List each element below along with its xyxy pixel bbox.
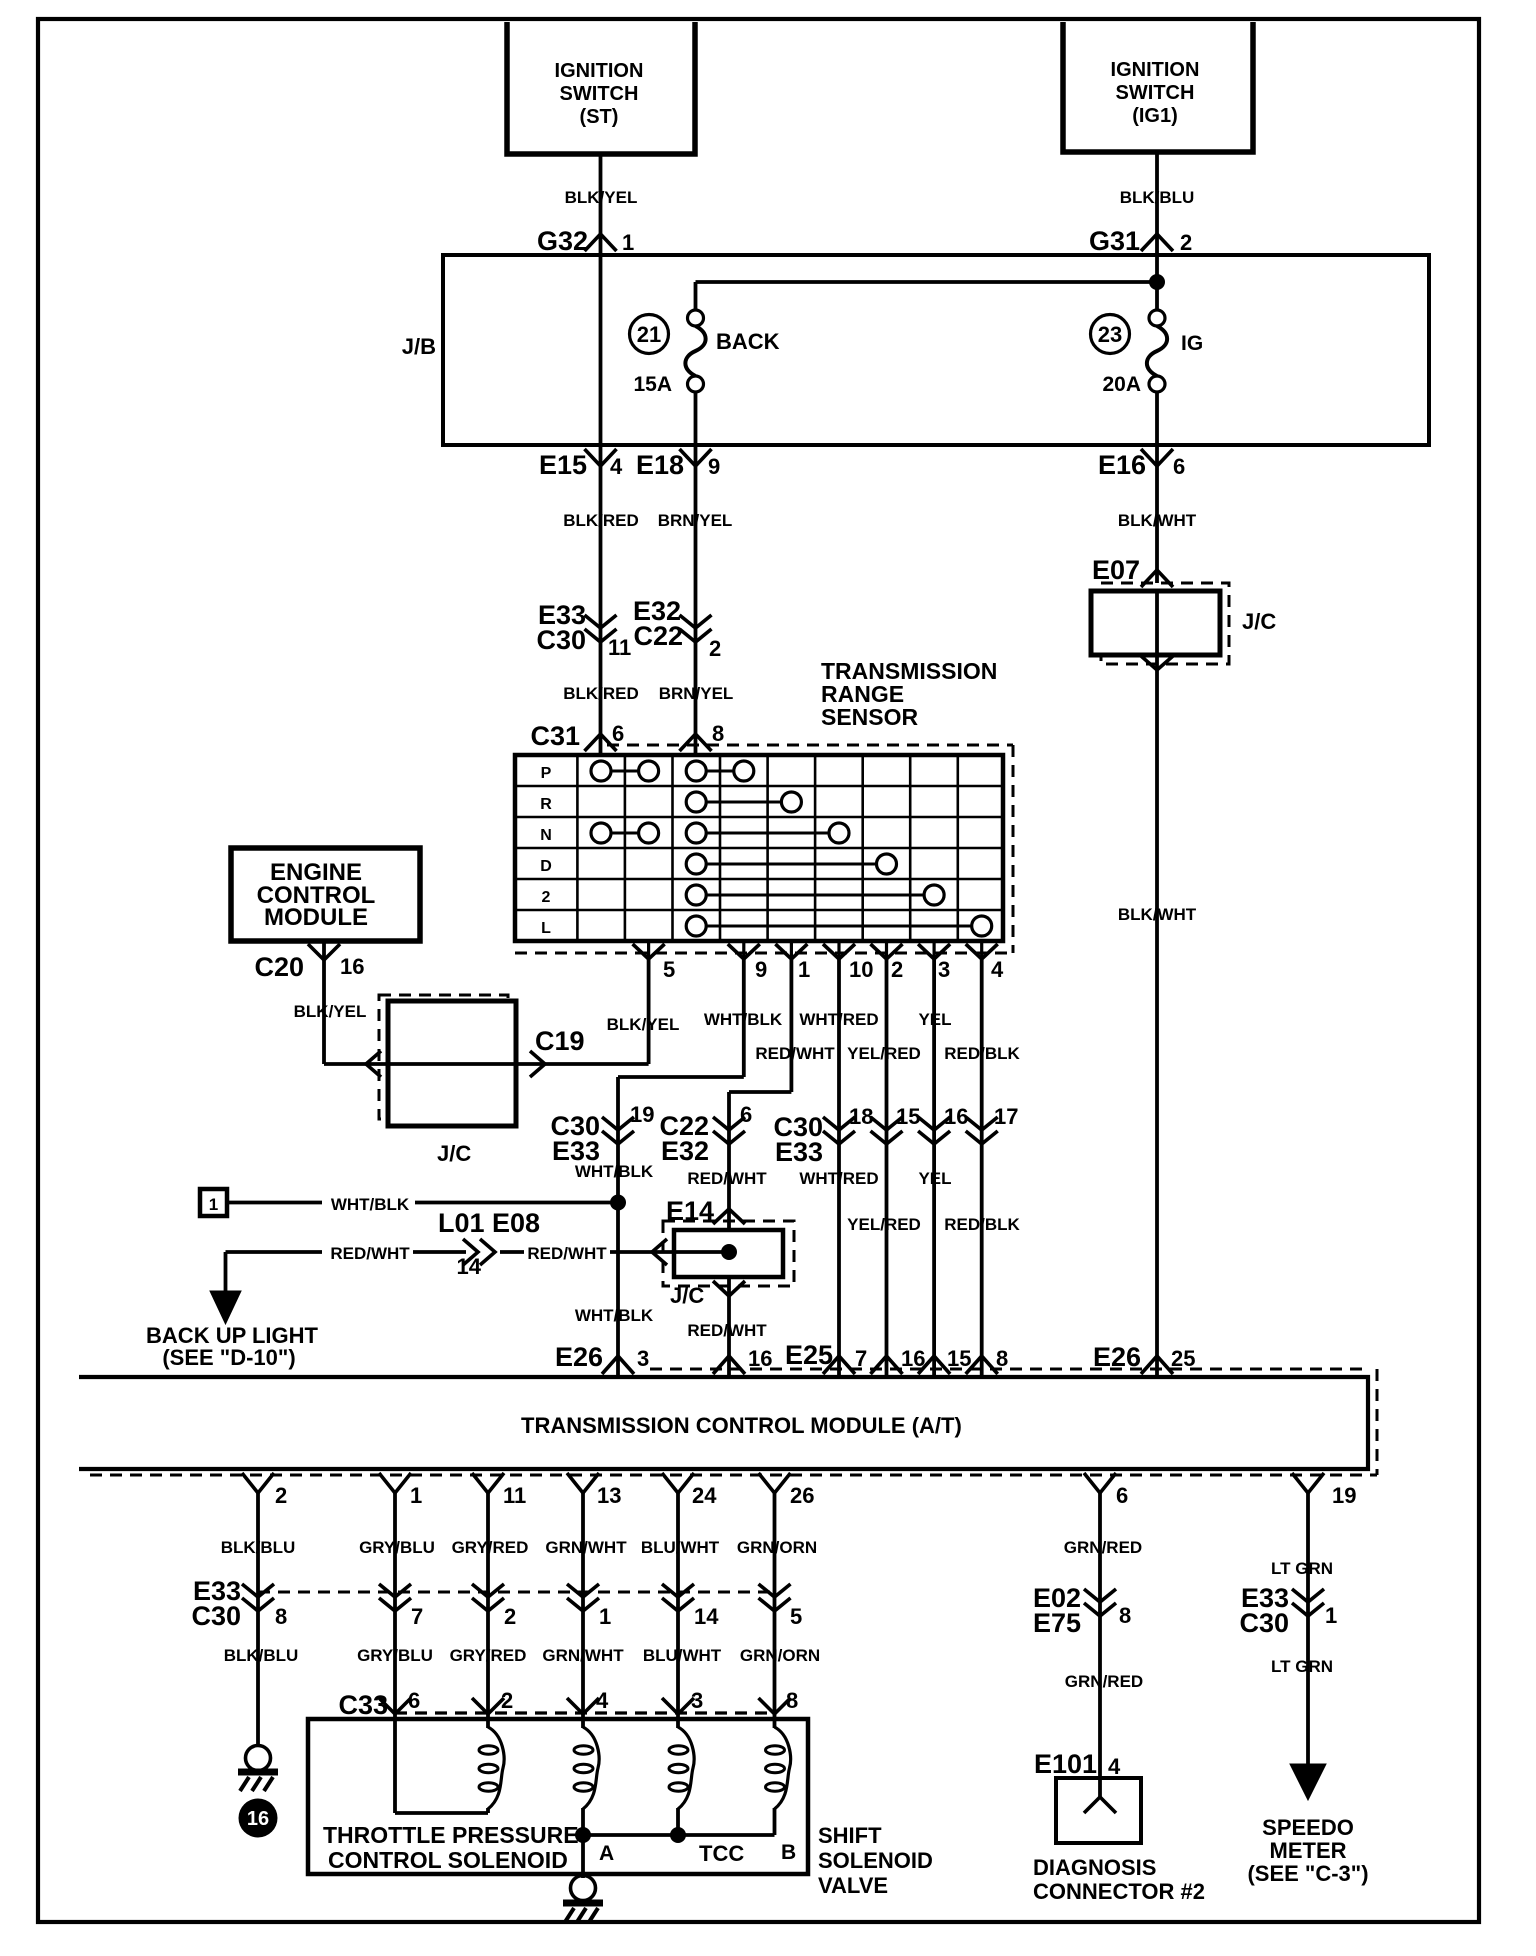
- svg-text:RED/WHT: RED/WHT: [687, 1321, 767, 1340]
- svg-text:C30: C30: [536, 625, 586, 655]
- inline connector E02/E75 pin 8: [1084, 1589, 1116, 1602]
- svg-text:GRN/RED: GRN/RED: [1064, 1538, 1142, 1557]
- back up light arrow: [210, 1291, 241, 1324]
- inline connector pin 17: [966, 1117, 998, 1130]
- svg-text:E18: E18: [636, 450, 684, 480]
- svg-text:SPEEDO: SPEEDO: [1262, 1815, 1354, 1840]
- inline connector pin 14: [662, 1584, 694, 1597]
- svg-text:11: 11: [608, 635, 631, 660]
- svg-text:19: 19: [630, 1102, 654, 1127]
- svg-text:C22: C22: [633, 621, 683, 651]
- svg-text:E101: E101: [1034, 1749, 1097, 1779]
- connector G31 pin 2: [1141, 234, 1173, 251]
- svg-text:P: P: [541, 765, 552, 782]
- svg-text:TCC: TCC: [699, 1841, 744, 1866]
- connector E14 fork: [713, 1209, 745, 1224]
- svg-text:GRY/RED: GRY/RED: [452, 1538, 529, 1557]
- svg-text:B: B: [781, 1841, 796, 1864]
- connector E25 pin 15: [918, 1356, 950, 1374]
- svg-text:J/C: J/C: [670, 1283, 704, 1308]
- svg-text:6: 6: [740, 1102, 752, 1127]
- speedometer arrow: [1290, 1764, 1326, 1800]
- svg-text:RED/WHT: RED/WHT: [330, 1244, 410, 1263]
- svg-text:E75: E75: [1033, 1608, 1081, 1638]
- svg-text:IG: IG: [1181, 332, 1203, 355]
- wire pin6 inside solenoid box: [393, 1719, 397, 1813]
- solenoid coil 3: [676, 1719, 680, 1728]
- engine control module box: [231, 848, 420, 941]
- wire through E14: [652, 1250, 729, 1254]
- svg-text:(ST): (ST): [580, 106, 619, 128]
- svg-text:BLK/WHT: BLK/WHT: [1118, 511, 1197, 530]
- svg-text:8: 8: [1119, 1603, 1131, 1628]
- svg-text:4: 4: [1108, 1754, 1121, 1779]
- svg-text:BRN/YEL: BRN/YEL: [658, 511, 733, 530]
- svg-text:GRN/ORN: GRN/ORN: [740, 1646, 820, 1665]
- svg-text:THROTTLE PRESSURE: THROTTLE PRESSURE: [323, 1822, 579, 1848]
- svg-text:1: 1: [622, 230, 634, 255]
- wire BLK/WHT through E07 down to TCM: [1155, 591, 1159, 1377]
- solenoid coil 4: [773, 1719, 777, 1728]
- svg-text:RED/WHT: RED/WHT: [527, 1244, 607, 1263]
- C19 J/C exit arrow: [530, 1051, 545, 1077]
- inline connector E33/C30 pin 8: [242, 1584, 274, 1597]
- wire GRY/RED: [486, 1493, 490, 1731]
- connector E26 pin 3: [602, 1356, 634, 1374]
- svg-text:2: 2: [501, 1688, 513, 1713]
- svg-text:16: 16: [944, 1104, 968, 1129]
- svg-text:15: 15: [896, 1104, 920, 1129]
- svg-text:RED/WHT: RED/WHT: [755, 1044, 835, 1063]
- wire BLU/WHT: [676, 1493, 680, 1731]
- TCM dashed connector outline: [650, 1368, 1368, 1371]
- inline connector pin 7: [379, 1584, 411, 1597]
- inline connector pin 1: [567, 1584, 599, 1597]
- svg-text:C30: C30: [191, 1601, 241, 1631]
- wire BLK/BLU from ignition switch IG1 to J/B: [1155, 152, 1159, 311]
- svg-text:BLK/WHT: BLK/WHT: [1118, 905, 1197, 924]
- svg-text:SOLENOID: SOLENOID: [818, 1848, 933, 1873]
- wire WHT/BLK from node 1: [227, 1201, 322, 1205]
- TCM output pin 19: [1292, 1473, 1324, 1493]
- svg-text:GRY/BLU: GRY/BLU: [359, 1538, 435, 1557]
- TCM output pin 13: [567, 1473, 599, 1493]
- svg-text:3: 3: [637, 1346, 649, 1371]
- wire BLK/YEL from C19 to sensor pin 5: [324, 1062, 649, 1066]
- svg-text:C31: C31: [530, 721, 580, 751]
- svg-text:BRN/YEL: BRN/YEL: [659, 684, 734, 703]
- E07 exit fork: [1141, 656, 1173, 670]
- svg-text:2: 2: [1180, 230, 1192, 255]
- svg-text:9: 9: [755, 957, 767, 982]
- transmission control module box: [79, 1377, 1368, 1469]
- svg-text:14: 14: [694, 1604, 719, 1629]
- svg-text:G32: G32: [537, 226, 588, 256]
- node junction dot in E14: [721, 1244, 737, 1260]
- wire WHT/BLK elbow from sensor pin 9: [742, 959, 746, 1077]
- svg-text:6: 6: [408, 1688, 420, 1713]
- svg-text:SWITCH: SWITCH: [560, 83, 639, 105]
- svg-text:BLK/BLU: BLK/BLU: [1120, 188, 1195, 207]
- connector E25 pin 8: [966, 1356, 998, 1374]
- svg-text:(SEE "D-10"): (SEE "D-10"): [162, 1345, 295, 1370]
- svg-text:7: 7: [411, 1604, 423, 1629]
- svg-text:24: 24: [692, 1483, 717, 1508]
- svg-text:6: 6: [612, 721, 624, 746]
- svg-text:13: 13: [597, 1483, 621, 1508]
- svg-text:(SEE "C-3"): (SEE "C-3"): [1247, 1861, 1368, 1886]
- svg-text:2: 2: [542, 889, 551, 906]
- svg-text:GRN/WHT: GRN/WHT: [542, 1646, 624, 1665]
- svg-text:14: 14: [457, 1254, 482, 1279]
- svg-text:C20: C20: [254, 952, 304, 982]
- wire LT GRN to speedometer: [1306, 1493, 1310, 1766]
- wire GRN/ORN: [773, 1493, 777, 1731]
- svg-text:1: 1: [798, 957, 810, 982]
- connector E15 pin 4: [585, 449, 617, 466]
- ground at BLK/BLU: [246, 1746, 271, 1771]
- svg-text:G31: G31: [1089, 226, 1140, 256]
- svg-text:19: 19: [1332, 1483, 1356, 1508]
- svg-text:(IG1): (IG1): [1132, 105, 1178, 127]
- wire TCC common: [583, 1833, 775, 1837]
- sensor contact table: [515, 755, 1003, 941]
- svg-text:BACK: BACK: [716, 329, 780, 354]
- svg-text:15A: 15A: [633, 373, 672, 396]
- wire YEL from sensor pin 3: [932, 959, 936, 1377]
- sensor contacts row 2: [686, 885, 706, 905]
- inline connector pin 16: [918, 1117, 950, 1130]
- connector C31 pin 6: [585, 734, 617, 751]
- sensor contacts row L: [686, 916, 706, 936]
- svg-text:15: 15: [947, 1346, 971, 1371]
- shift solenoid valve box: [308, 1719, 808, 1874]
- wire from fuse 23 down to J/B exit: [1155, 392, 1159, 584]
- svg-text:J/C: J/C: [1242, 609, 1276, 634]
- svg-text:17: 17: [994, 1104, 1018, 1129]
- svg-text:9: 9: [708, 454, 720, 479]
- wire down to back up light: [224, 1252, 228, 1293]
- svg-text:E15: E15: [539, 450, 587, 480]
- svg-text:A: A: [599, 1842, 614, 1865]
- svg-text:SHIFT: SHIFT: [818, 1823, 882, 1848]
- svg-text:C30: C30: [1239, 1608, 1289, 1638]
- svg-text:21: 21: [637, 322, 661, 347]
- sensor contacts row D: [686, 854, 706, 874]
- svg-text:C19: C19: [535, 1026, 585, 1056]
- svg-text:10: 10: [849, 957, 873, 982]
- node junction dot WHT/BLK: [610, 1195, 626, 1211]
- svg-text:2: 2: [891, 957, 903, 982]
- ground at solenoid valve: [571, 1876, 596, 1901]
- inline connector E33/C30 pin 1: [1292, 1589, 1324, 1602]
- svg-text:E26: E26: [1093, 1342, 1141, 1372]
- solenoid coil 1: [486, 1719, 490, 1728]
- TCM output pin 6: [1084, 1473, 1116, 1493]
- connector E26 pin 16: [713, 1356, 745, 1374]
- svg-text:E16: E16: [1098, 450, 1146, 480]
- svg-text:4: 4: [610, 454, 623, 479]
- svg-text:BLK/BLU: BLK/BLU: [221, 1538, 296, 1557]
- svg-text:TRANSMISSION CONTROL MODULE (A: TRANSMISSION CONTROL MODULE (A/T): [521, 1413, 962, 1438]
- svg-text:5: 5: [790, 1604, 802, 1629]
- svg-text:J/C: J/C: [437, 1141, 471, 1166]
- svg-text:LT GRN: LT GRN: [1271, 1657, 1333, 1676]
- inline connector E32/C22 pin 2: [680, 615, 712, 628]
- svg-text:GRY/RED: GRY/RED: [450, 1646, 527, 1665]
- svg-text:N: N: [540, 827, 552, 844]
- svg-text:4: 4: [991, 957, 1004, 982]
- inline connector pin 2: [472, 1584, 504, 1597]
- junction connector E14 J/C box: [663, 1221, 794, 1286]
- svg-text:1: 1: [599, 1604, 611, 1629]
- svg-text:GRN/RED: GRN/RED: [1065, 1672, 1143, 1691]
- svg-text:7: 7: [855, 1346, 867, 1371]
- C19 J/C entry arrow: [366, 1051, 381, 1077]
- svg-text:11: 11: [503, 1483, 526, 1508]
- inline connector C30/E33 pin 18: [823, 1117, 855, 1130]
- solenoid coil 2: [581, 1719, 585, 1728]
- svg-text:R: R: [540, 796, 552, 813]
- svg-text:VALVE: VALVE: [818, 1873, 888, 1898]
- sensor contacts row N: [591, 823, 611, 843]
- svg-text:8: 8: [786, 1688, 798, 1713]
- svg-text:DIAGNOSIS: DIAGNOSIS: [1033, 1855, 1156, 1880]
- svg-text:3: 3: [691, 1688, 703, 1713]
- svg-text:8: 8: [275, 1604, 287, 1629]
- inline connector C22/E32 pin 6: [713, 1117, 745, 1130]
- svg-text:L: L: [541, 920, 551, 937]
- svg-text:18: 18: [849, 1104, 873, 1129]
- svg-text:2: 2: [709, 636, 721, 661]
- node junction dot at G31 feed: [1149, 274, 1165, 290]
- svg-text:WHT/BLK: WHT/BLK: [575, 1162, 654, 1181]
- wire BLK/BLU to ground: [256, 1493, 260, 1747]
- svg-text:CONTROL SOLENOID: CONTROL SOLENOID: [328, 1847, 568, 1873]
- svg-text:YEL/RED: YEL/RED: [847, 1215, 921, 1234]
- connector E16 pin 6: [1141, 449, 1173, 466]
- svg-text:IGNITION: IGNITION: [555, 60, 644, 82]
- connector E25 pin 7: [823, 1356, 855, 1374]
- svg-text:RED/BLK: RED/BLK: [944, 1215, 1020, 1234]
- svg-text:1: 1: [1325, 1603, 1337, 1628]
- sensor contacts row P: [591, 761, 611, 781]
- sensor bottom pins 5 9 1 10 2 3 4: [647, 941, 650, 959]
- wire to solenoid ground: [581, 1835, 585, 1878]
- svg-text:BLU/WHT: BLU/WHT: [641, 1538, 720, 1557]
- wire GRY/BLU: [393, 1493, 397, 1813]
- connector C20 pin 16: [308, 944, 340, 960]
- svg-text:GRN/ORN: GRN/ORN: [737, 1538, 817, 1557]
- svg-text:23: 23: [1098, 322, 1122, 347]
- ignition switch (IG1) box: [1063, 22, 1253, 152]
- svg-text:1: 1: [209, 1195, 218, 1214]
- svg-text:MODULE: MODULE: [264, 904, 368, 931]
- wire RED/WHT to E14: [226, 1250, 323, 1254]
- svg-text:2: 2: [504, 1604, 516, 1629]
- svg-text:8: 8: [996, 1346, 1008, 1371]
- sensor contacts row R: [686, 792, 706, 812]
- wire YEL/RED from sensor pin 2: [885, 959, 889, 1377]
- node 1 box: [200, 1189, 227, 1216]
- TCM output pin 2: [242, 1473, 274, 1493]
- wire from fuse 21 down to J/B exit: [694, 392, 698, 756]
- wire RED/BLK from sensor pin 4: [980, 959, 984, 1377]
- svg-text:YEL: YEL: [918, 1169, 951, 1188]
- svg-text:20A: 20A: [1102, 373, 1141, 396]
- inline connector C30/E33 pin 19: [602, 1117, 634, 1130]
- svg-text:E33: E33: [775, 1137, 823, 1167]
- TCM output pin 11: [472, 1473, 504, 1493]
- svg-text:2: 2: [275, 1483, 287, 1508]
- wire GRN/RED to diagnosis connector: [1098, 1493, 1102, 1778]
- svg-text:16: 16: [247, 1808, 269, 1830]
- E14 exit fork: [713, 1281, 745, 1296]
- connector G32 pin 1: [585, 234, 617, 251]
- connector E18 pin 9: [680, 449, 712, 466]
- TCM output pin 1: [379, 1473, 411, 1493]
- svg-text:25: 25: [1171, 1346, 1195, 1371]
- connector C31 pin 8: [680, 734, 712, 751]
- ignition switch (ST) box: [507, 22, 695, 154]
- svg-text:E14: E14: [666, 1196, 714, 1226]
- svg-text:BLK/BLU: BLK/BLU: [224, 1646, 299, 1665]
- wire inside J/B from fuse BACK to IG1 feed: [696, 280, 1158, 284]
- inline connector E33/C30 pin 11: [585, 615, 617, 628]
- wire BLK/YEL from ECM: [322, 942, 326, 1064]
- wire RED/WHT elbow from sensor pin 1: [790, 959, 794, 1092]
- svg-text:4: 4: [596, 1688, 609, 1713]
- node junction dot A: [575, 1827, 591, 1843]
- svg-text:3: 3: [938, 957, 950, 982]
- wire GRN/WHT: [581, 1493, 585, 1731]
- wire BLK/YEL from ignition switch ST to J/B: [599, 154, 603, 755]
- fuse 21 BACK 15A: [688, 310, 704, 326]
- svg-text:J/B: J/B: [402, 334, 436, 359]
- inline connector row dashed line: [258, 1591, 775, 1594]
- svg-text:RED/WHT: RED/WHT: [687, 1169, 767, 1188]
- svg-text:16: 16: [748, 1346, 772, 1371]
- connector E26 pin 25: [1141, 1356, 1173, 1374]
- svg-text:CONNECTOR #2: CONNECTOR #2: [1033, 1879, 1205, 1904]
- svg-text:E32: E32: [661, 1136, 709, 1166]
- connector E07 fork: [1141, 570, 1173, 587]
- svg-text:D: D: [540, 858, 552, 875]
- junction connector C19 J/C box: [379, 995, 508, 1119]
- svg-text:6: 6: [1173, 454, 1185, 479]
- svg-text:LT GRN: LT GRN: [1271, 1559, 1333, 1578]
- svg-text:C33: C33: [338, 1690, 388, 1720]
- svg-text:6: 6: [1116, 1483, 1128, 1508]
- C33 dashed connector line: [395, 1711, 775, 1714]
- svg-text:5: 5: [663, 957, 675, 982]
- diagnosis connector box: [1056, 1778, 1141, 1843]
- svg-text:YEL/RED: YEL/RED: [847, 1044, 921, 1063]
- svg-text:SENSOR: SENSOR: [821, 704, 919, 730]
- svg-text:1: 1: [410, 1483, 422, 1508]
- junction connector E07 J/C box: [1101, 583, 1229, 664]
- svg-text:BLK/RED: BLK/RED: [563, 511, 639, 530]
- E101 fork inside box: [1098, 1778, 1102, 1797]
- svg-text:L01 E08: L01 E08: [438, 1208, 540, 1238]
- svg-text:16: 16: [340, 954, 364, 979]
- sensor dashed connector outline: [607, 744, 1013, 747]
- junction block J/B box: [443, 255, 1429, 445]
- svg-text:E07: E07: [1092, 555, 1140, 585]
- fuse 23 IG 20A: [1149, 310, 1165, 326]
- TCM output pin 24: [662, 1473, 694, 1493]
- svg-text:BLK/YEL: BLK/YEL: [565, 188, 638, 207]
- svg-text:E25: E25: [785, 1340, 833, 1370]
- connector E25 pin 16: [871, 1356, 903, 1374]
- svg-text:GRY/BLU: GRY/BLU: [357, 1646, 433, 1665]
- svg-text:BLK/RED: BLK/RED: [563, 684, 639, 703]
- inline connector pin 5: [759, 1584, 791, 1597]
- wire stub to fuse 21: [694, 282, 698, 311]
- svg-text:BLK/YEL: BLK/YEL: [294, 1002, 367, 1021]
- TCM output pin 26: [759, 1473, 791, 1493]
- svg-text:26: 26: [790, 1483, 814, 1508]
- svg-text:BLU/WHT: BLU/WHT: [643, 1646, 722, 1665]
- svg-text:GRN/WHT: GRN/WHT: [545, 1538, 627, 1557]
- wire WHT/RED from sensor pin 10: [837, 959, 841, 1377]
- node junction dot TCC: [670, 1827, 686, 1843]
- svg-text:WHT/BLK: WHT/BLK: [331, 1195, 410, 1214]
- svg-text:SWITCH: SWITCH: [1116, 82, 1195, 104]
- svg-text:BLK/YEL: BLK/YEL: [607, 1015, 680, 1034]
- svg-text:WHT/BLK: WHT/BLK: [575, 1306, 654, 1325]
- svg-text:METER: METER: [1270, 1838, 1347, 1863]
- svg-text:8: 8: [712, 721, 724, 746]
- svg-text:E26: E26: [555, 1342, 603, 1372]
- svg-text:IGNITION: IGNITION: [1111, 59, 1200, 81]
- ground reference 16 marker: [239, 1799, 278, 1838]
- E14 entry arrow: [652, 1239, 667, 1265]
- svg-text:WHT/RED: WHT/RED: [799, 1169, 878, 1188]
- inline connector pin 15: [871, 1117, 903, 1130]
